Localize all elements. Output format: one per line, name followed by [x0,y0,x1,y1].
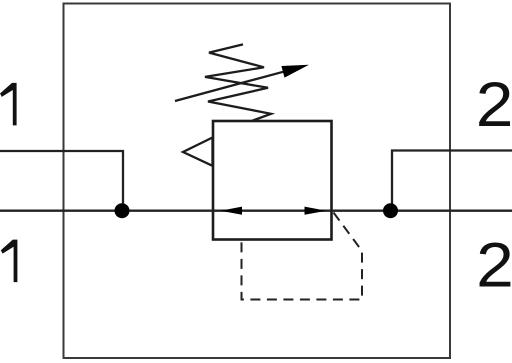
flow arrowhead left [221,207,243,215]
adjustment arrow head [281,65,309,78]
label port 1 bottom [1,240,18,283]
adjustment arrow shaft [175,71,285,101]
wire main line 1-2 [0,210,512,212]
flow arrowhead right [305,207,327,215]
regulator body U1 [213,121,332,240]
svg-text:2: 2 [476,231,512,301]
wire port 2 upper stub [392,151,512,211]
enclosure frame [64,4,451,359]
adjustable spring [205,44,271,120]
label port 1 top [0,83,17,126]
wire port 1 upper stub [0,151,123,211]
pilot line dashed [242,213,363,300]
junction node left [115,203,130,218]
svg-text:2: 2 [476,70,512,140]
relief pilot triangle [183,138,213,166]
junction node right [383,203,398,218]
